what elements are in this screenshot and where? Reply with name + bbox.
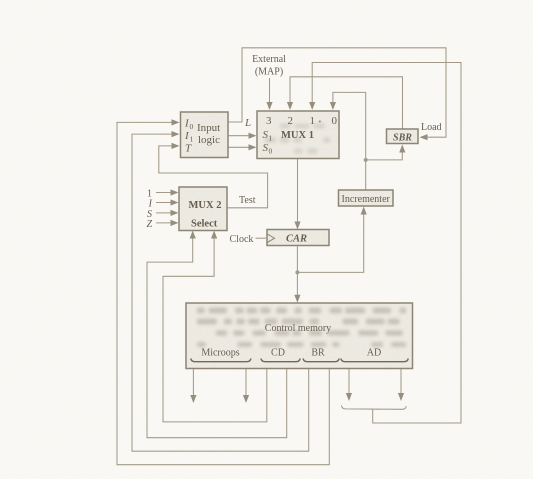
wire L: input logic L output to SBR Load	[228, 48, 446, 141]
wire CAR output to control memory	[294, 246, 300, 303]
MUX1 box U1	[257, 111, 339, 159]
node junction incrementer/SBR	[364, 158, 368, 162]
wire input logic S1 output to MUX1	[228, 133, 257, 139]
brace under Microops field	[191, 359, 408, 362]
input logic box	[181, 112, 229, 158]
brace under BR field	[303, 359, 339, 362]
wire AD output arrow left	[346, 369, 352, 402]
CAR register box	[267, 230, 329, 246]
incrementer box	[339, 190, 394, 206]
wire MUX1 output to CAR	[294, 159, 300, 230]
wire Incrementer output to MUX1 input 0	[330, 92, 366, 190]
wire microop output arrow right	[243, 369, 249, 404]
scan bleed-through texture in control memory box	[197, 308, 406, 347]
wire microop output arrow left	[190, 369, 196, 404]
control memory box	[186, 303, 413, 369]
wire MUX2 input Z	[156, 220, 179, 226]
wire BR bit to input logic I0	[117, 119, 329, 464]
wire AD field to MUX1 input 1	[309, 63, 461, 424]
brace under CD field	[261, 359, 300, 362]
boxes	[179, 111, 418, 369]
wire SBR output to MUX1 input 2	[287, 77, 403, 129]
wire Incrementer output branch to SBR input	[366, 145, 406, 160]
scan bleed-through texture in MUX1 box	[265, 124, 331, 154]
wire input logic S0 output to MUX1	[228, 144, 257, 150]
wire BR bit to input logic I1	[132, 131, 309, 451]
wire External (MAP) into MUX1 input 3	[266, 78, 272, 110]
node junction CAR output	[295, 270, 299, 274]
wire MUX2 input S	[156, 210, 179, 216]
wire AD output arrow right	[398, 369, 404, 402]
wire MUX2 Test output to input logic T	[159, 143, 268, 208]
wire CD bit 0 from control memory to MUX2 select left	[147, 231, 287, 438]
brace under AD outputs	[341, 406, 406, 410]
SBR register box	[387, 129, 419, 144]
clock edge triangle inside CAR	[267, 234, 275, 243]
wire CD bit 1 from control memory to MUX2 select right	[163, 231, 267, 422]
wire MUX2 input 1	[156, 189, 179, 195]
wire CAR output branch to incrementer input	[297, 207, 366, 273]
wire Clock into CAR	[256, 237, 267, 239]
MUX2 box U2	[179, 187, 227, 231]
brace under AD field	[341, 359, 408, 362]
wire MUX2 input I	[156, 199, 179, 205]
